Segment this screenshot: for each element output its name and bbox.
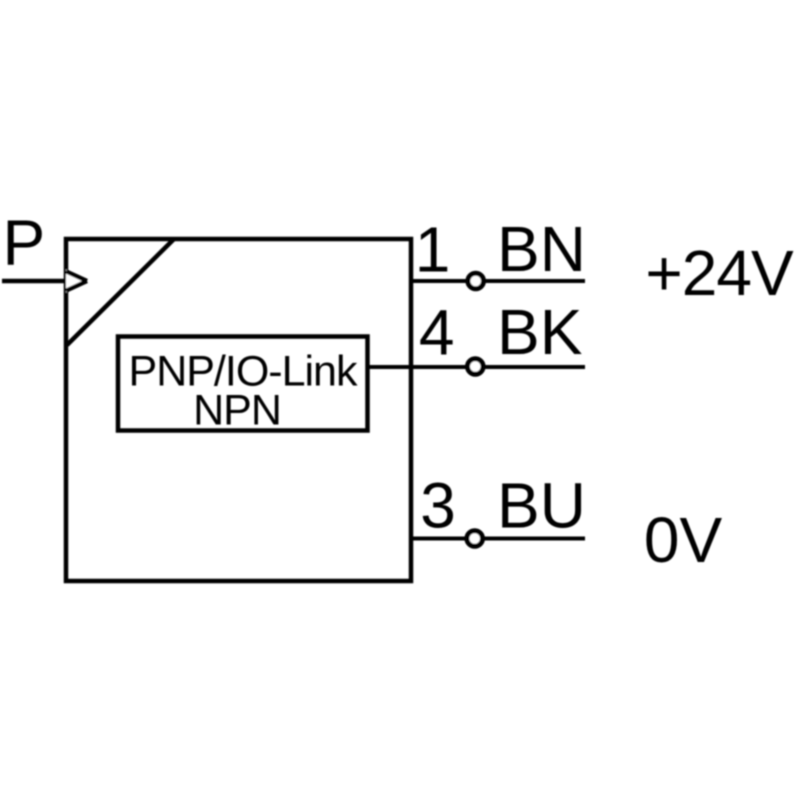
svg-text:+24V: +24V [645,237,794,309]
wire pin 3 (BU) [411,537,585,541]
svg-text:3: 3 [420,470,456,542]
svg-text:0V: 0V [644,504,723,576]
terminal circle pin 1 [468,273,484,289]
wire pin 1 (BN) [411,279,585,283]
terminal circle pin 3 [467,531,483,547]
wire pin 4 (BK) [368,365,586,369]
svg-text:BK: BK [497,296,582,368]
diagonal sensing line [67,239,174,345]
svg-text:BN: BN [497,213,586,285]
svg-text:4: 4 [419,297,455,369]
svg-text:1: 1 [415,214,451,286]
svg-text:NPN: NPN [193,387,281,435]
pressure input arrowhead [66,270,87,293]
sensor body box [66,239,411,581]
pressure input wire [2,279,66,284]
terminal circle pin 4 [468,359,484,375]
inner function box [118,337,368,431]
svg-text:P: P [3,207,46,279]
svg-text:BU: BU [497,470,586,542]
